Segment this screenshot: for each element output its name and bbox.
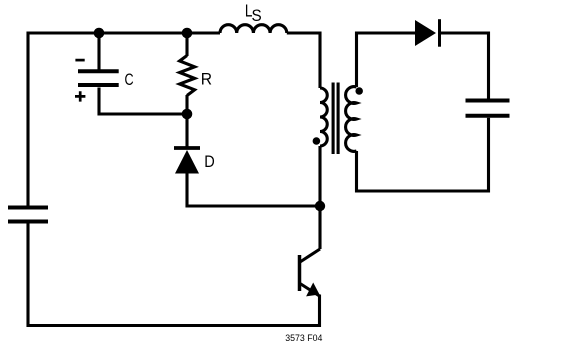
label plus xyxy=(75,91,85,101)
transformer T1 primary lead bottom xyxy=(318,146,321,206)
transistor Q1 collector lead xyxy=(318,204,321,249)
node junction R top xyxy=(182,28,193,39)
inductor LS xyxy=(220,25,287,33)
wire secondary bottom rail xyxy=(355,189,490,192)
label minus xyxy=(75,59,84,62)
capacitor C bottom lead xyxy=(97,88,100,116)
svg-text:D: D xyxy=(204,152,215,171)
diode D triangle xyxy=(175,150,199,174)
diode D anode lead xyxy=(185,174,188,208)
diode D cathode bar xyxy=(174,146,200,150)
transistor Q1 base bar xyxy=(298,255,302,291)
capacitor input (far left) xyxy=(8,208,48,222)
wire top rail left xyxy=(27,31,221,34)
output diode triangle xyxy=(415,20,436,46)
capacitor C top lead xyxy=(97,33,100,70)
node junction R bottom xyxy=(182,109,193,120)
capacitor output xyxy=(466,101,510,116)
wire C bottom to R bottom xyxy=(98,112,188,115)
resistor R xyxy=(180,56,195,96)
wire secondary top to output diode xyxy=(355,31,416,34)
wire output cap bottom lead xyxy=(487,118,490,193)
transformer core xyxy=(332,83,335,155)
transformer T1 secondary lead bottom xyxy=(355,151,358,193)
node junction C top xyxy=(94,28,105,39)
transformer T1 primary lead top xyxy=(318,32,321,89)
svg-text:3573 F04: 3573 F04 xyxy=(285,333,322,343)
transformer T1 secondary winding xyxy=(346,87,357,152)
svg-text:R: R xyxy=(201,69,212,88)
wire output diode to cap xyxy=(440,31,490,34)
transformer T1 secondary lead top xyxy=(355,32,358,88)
diode D top lead (cathode) xyxy=(185,114,188,148)
svg-text:C: C xyxy=(125,70,134,89)
wire top rail right of LS xyxy=(287,31,322,34)
wire D anode to collector node xyxy=(187,204,320,207)
resistor R bottom lead xyxy=(185,95,188,114)
transformer primary phase dot xyxy=(313,137,321,145)
wire output cap top lead xyxy=(487,32,490,99)
resistor R top lead xyxy=(185,33,188,56)
node junction collector xyxy=(315,201,325,211)
transistor Q1 emitter arrow xyxy=(306,283,319,297)
wire left rail upper xyxy=(26,32,29,207)
transistor Q1 emitter slant xyxy=(300,284,320,297)
transformer secondary phase dot xyxy=(355,87,363,95)
capacitor C xyxy=(78,71,119,85)
svg-text:S: S xyxy=(252,7,262,25)
wire bottom rail xyxy=(27,324,322,327)
transistor Q1 emitter lead xyxy=(318,295,321,328)
transistor Q1 collector slant xyxy=(300,249,320,262)
output diode cathode bar xyxy=(438,19,441,47)
wire left rail lower xyxy=(26,224,29,328)
transformer T1 primary winding xyxy=(320,88,327,146)
